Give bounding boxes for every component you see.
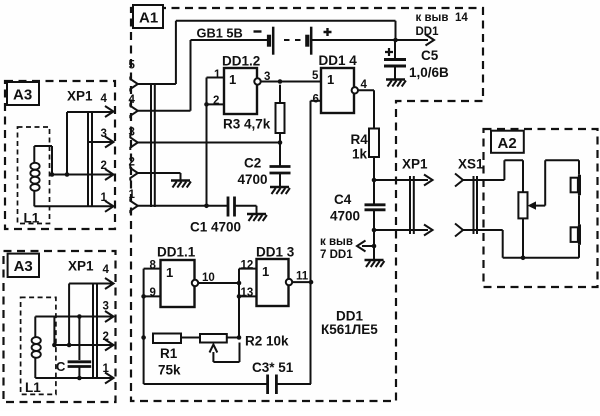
svg-text:XP1: XP1	[402, 157, 428, 172]
svg-text:A2: A2	[498, 135, 517, 152]
svg-text:75k: 75k	[158, 363, 181, 378]
svg-text:C: C	[56, 359, 66, 374]
svg-text:2: 2	[129, 157, 135, 169]
svg-text:GB1 5B: GB1 5B	[197, 26, 243, 41]
svg-text:12: 12	[241, 260, 254, 272]
svg-text:R3 4,7k: R3 4,7k	[223, 117, 271, 132]
svg-text:C5: C5	[421, 48, 439, 63]
svg-text:XP1: XP1	[68, 259, 94, 274]
svg-text:4700: 4700	[330, 209, 360, 224]
svg-text:9: 9	[150, 287, 156, 299]
svg-text:6: 6	[313, 94, 319, 106]
svg-text:XP1: XP1	[67, 89, 93, 104]
svg-text:1: 1	[103, 363, 110, 375]
svg-text:DD1: DD1	[416, 26, 440, 38]
svg-text:3: 3	[103, 301, 109, 313]
svg-text:A3: A3	[13, 87, 32, 104]
svg-text:5: 5	[129, 60, 136, 72]
svg-text:4: 4	[361, 79, 368, 91]
svg-text:R1: R1	[160, 346, 178, 361]
svg-text:DD1 4: DD1 4	[319, 53, 358, 68]
svg-text:R2 10k: R2 10k	[245, 334, 289, 349]
svg-text:2: 2	[213, 95, 219, 107]
svg-text:1: 1	[262, 264, 269, 279]
svg-text:7 DD1: 7 DD1	[320, 249, 353, 261]
svg-text:4700: 4700	[238, 172, 268, 187]
svg-text:C2: C2	[244, 156, 261, 171]
svg-text:10: 10	[202, 272, 215, 284]
svg-text:C3* 51: C3* 51	[252, 360, 294, 375]
svg-text:DD1.1: DD1.1	[157, 245, 196, 260]
svg-text:4: 4	[101, 93, 108, 105]
svg-text:4: 4	[103, 264, 110, 276]
svg-text:5: 5	[312, 70, 319, 82]
svg-text:3: 3	[101, 128, 107, 140]
svg-text:к выв: к выв	[320, 236, 353, 248]
svg-text:к выв: к выв	[416, 12, 449, 24]
svg-text:XS1: XS1	[458, 157, 484, 172]
svg-text:2: 2	[101, 160, 107, 172]
svg-text:2: 2	[103, 331, 109, 343]
svg-text:1: 1	[101, 192, 108, 204]
svg-text:8: 8	[150, 260, 157, 272]
svg-text:3: 3	[264, 71, 270, 83]
svg-text:3: 3	[129, 127, 135, 139]
svg-text:1: 1	[214, 69, 221, 81]
svg-text:DD1.2: DD1.2	[222, 54, 260, 69]
svg-text:A1: A1	[139, 10, 158, 27]
svg-text:L1: L1	[24, 211, 40, 226]
svg-text:11: 11	[296, 271, 309, 283]
svg-text:C1 4700: C1 4700	[190, 220, 241, 235]
svg-text:1k: 1k	[352, 147, 368, 162]
svg-text:1: 1	[166, 265, 173, 280]
svg-text:1: 1	[129, 189, 136, 201]
svg-text:13: 13	[241, 287, 254, 299]
svg-text:4: 4	[129, 94, 136, 106]
svg-text:R4: R4	[351, 132, 369, 147]
svg-text:1: 1	[229, 72, 236, 87]
svg-text:1,0/6В: 1,0/6В	[409, 65, 449, 80]
svg-text:DD1 3: DD1 3	[256, 245, 295, 260]
svg-text:C4: C4	[334, 192, 352, 207]
svg-text:1: 1	[327, 72, 334, 87]
svg-text:L1: L1	[25, 380, 41, 395]
svg-text:A3: A3	[14, 258, 33, 275]
svg-text:К561ЛЕ5: К561ЛЕ5	[321, 322, 378, 337]
svg-text:14: 14	[455, 12, 468, 24]
